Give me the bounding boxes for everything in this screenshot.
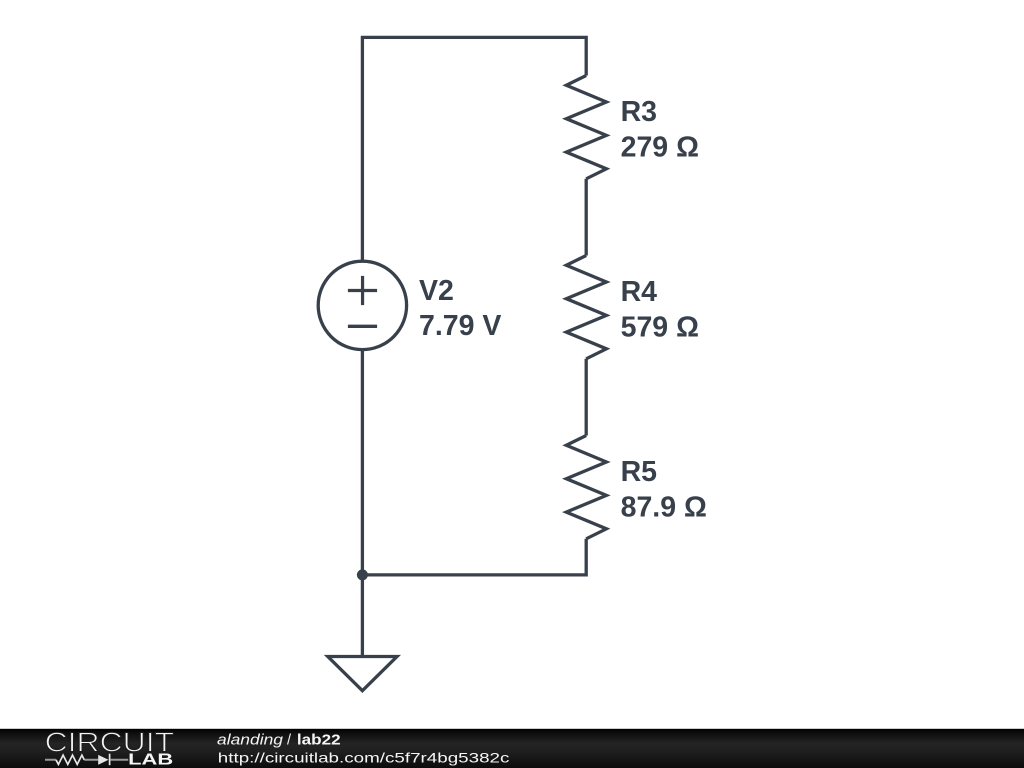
wire R4 bottom to R5 top xyxy=(585,359,588,436)
svg-text:alanding: alanding xyxy=(217,732,283,748)
wire node to ground xyxy=(361,575,364,657)
resistor R5 xyxy=(566,436,606,539)
footer bar xyxy=(0,729,1024,768)
svg-text:7.79 V: 7.79 V xyxy=(419,310,501,342)
resistor R3 xyxy=(566,76,606,179)
voltage source V2 xyxy=(318,261,406,349)
logo resistor-diode glyph xyxy=(45,754,128,766)
wire R3 bottom to R4 top xyxy=(585,179,588,256)
resistor R4 xyxy=(566,256,606,359)
svg-text:LAB: LAB xyxy=(128,752,173,768)
svg-text:R5: R5 xyxy=(621,456,658,488)
svg-text:279 Ω: 279 Ω xyxy=(621,132,699,164)
wire V2 bottom to node xyxy=(361,349,364,575)
svg-text:R4: R4 xyxy=(621,276,658,308)
svg-text:V2: V2 xyxy=(419,275,454,307)
svg-text:R3: R3 xyxy=(621,96,657,128)
node junction dot xyxy=(357,569,368,580)
wire top loop: V2 top, up over to R3 top lead xyxy=(362,37,586,262)
svg-text:http://circuitlab.com/c5f7r4bg: http://circuitlab.com/c5f7r4bg5382c xyxy=(218,749,510,765)
svg-text:lab22: lab22 xyxy=(297,732,341,748)
ground xyxy=(328,657,397,691)
svg-text:579 Ω: 579 Ω xyxy=(621,312,699,344)
svg-text:87.9 Ω: 87.9 Ω xyxy=(621,492,707,524)
wire R5 bottom along bottom to node xyxy=(362,539,586,575)
